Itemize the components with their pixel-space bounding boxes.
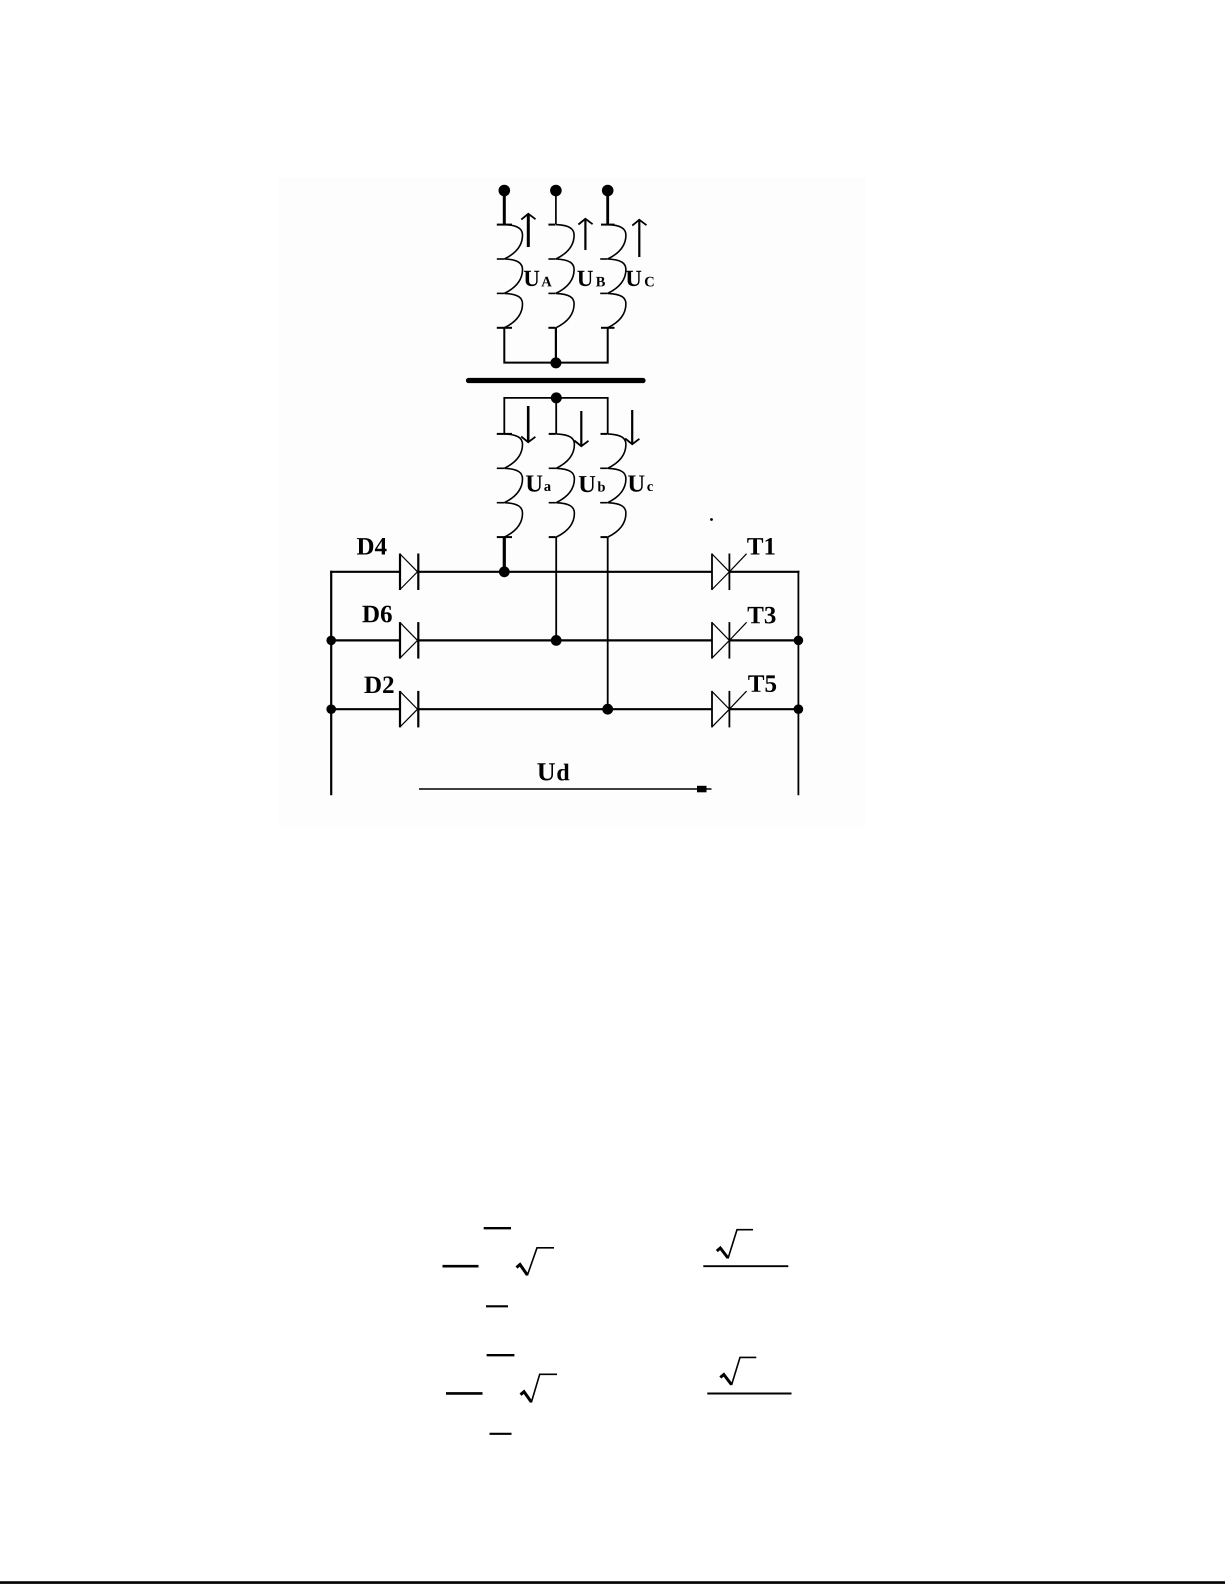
formula 1 radical right — [717, 1230, 753, 1259]
wire primary B to neutral — [555, 328, 557, 360]
diode D6 — [400, 622, 418, 659]
formula 1 fraction bar top — [484, 1227, 511, 1229]
primary winding UC — [600, 225, 626, 328]
arrowhead Ud — [697, 786, 707, 793]
wire primary C to neutral — [560, 328, 608, 363]
formula 2 fraction bar top — [487, 1354, 515, 1356]
thyristor T5 — [712, 691, 747, 728]
label UA — [524, 271, 552, 287]
label D4 — [357, 538, 387, 555]
junction left bus rail 2 — [326, 636, 336, 646]
arrow UC direction — [632, 220, 646, 257]
wire primary A to neutral — [504, 328, 552, 363]
arrow Ub direction — [574, 411, 588, 446]
transformer core — [469, 378, 644, 383]
label Ud — [537, 763, 569, 780]
terminal A — [499, 185, 511, 197]
wire winding c to node c — [607, 537, 609, 709]
formula 2 fraction bar bottom — [490, 1433, 512, 1435]
wire winding a to node a — [503, 537, 506, 572]
junction right bus rail 3 — [794, 704, 804, 714]
junction secondary neutral — [551, 392, 562, 403]
label Ua — [526, 476, 551, 492]
label D6 — [362, 606, 391, 623]
label T1 — [747, 538, 775, 555]
formula 2 equals dash — [446, 1392, 483, 1395]
node c junction — [602, 704, 613, 715]
arrow Uc direction — [625, 410, 639, 444]
wire left bus — [330, 571, 332, 796]
wire terminal B lead — [555, 193, 557, 224]
junction primary neutral — [550, 357, 561, 368]
label Uc — [628, 476, 653, 492]
label Ub — [579, 476, 605, 492]
formula 2 radical left — [521, 1374, 558, 1402]
thyristor T3 — [712, 622, 747, 659]
junction right bus rail 2 — [794, 636, 804, 646]
secondary winding Ub — [549, 434, 575, 537]
diode D2 — [400, 691, 418, 728]
secondary winding Ua — [497, 434, 523, 537]
wire Ud measurement arrow — [419, 788, 712, 790]
arrow UA direction — [521, 214, 535, 247]
formula 1 radical left — [517, 1248, 555, 1276]
formula 2 radical right — [720, 1357, 756, 1385]
formula 1 fraction bar bottom — [486, 1305, 508, 1307]
footer rule — [0, 1581, 1225, 1584]
label UB — [577, 271, 605, 287]
secondary winding Uc — [600, 434, 626, 537]
primary winding UA — [497, 225, 523, 328]
formula 1 equals dash — [443, 1265, 479, 1268]
wire rail 1 — [330, 571, 799, 573]
primary winding UB — [548, 225, 574, 328]
label D2 — [364, 676, 393, 693]
formula 2 underline right — [707, 1393, 791, 1395]
terminal B — [550, 185, 562, 197]
label T3 — [748, 607, 776, 624]
terminal C — [602, 185, 614, 197]
stray dot mark — [710, 518, 713, 521]
wire terminal C lead — [606, 193, 609, 225]
label UC — [626, 271, 654, 287]
junction left bus rail 3 — [326, 704, 336, 714]
wire winding b to node b — [555, 537, 557, 640]
thyristor T1 — [712, 554, 747, 591]
diode D4 — [400, 554, 418, 591]
wire right bus — [797, 571, 799, 796]
node a junction — [499, 566, 510, 577]
arrow UB direction — [578, 219, 592, 250]
node b junction — [551, 635, 562, 646]
formula 1 underline right — [703, 1265, 788, 1267]
wire rail 2 — [330, 639, 799, 641]
wire terminal A lead — [503, 193, 506, 225]
label T5 — [748, 675, 776, 692]
wire neutral to winding b — [555, 398, 557, 434]
wire rail 3 — [330, 708, 799, 710]
wire neutral to winding c — [560, 398, 608, 434]
wire neutral to winding a — [504, 398, 552, 434]
arrow Ua direction — [521, 406, 535, 442]
